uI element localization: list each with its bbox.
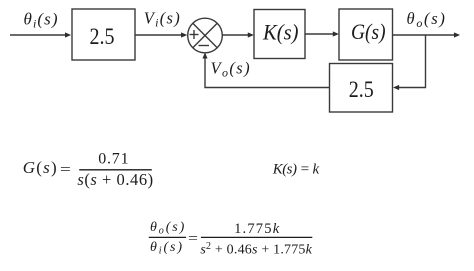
- svg-text:Vi(s): Vi(s): [144, 8, 181, 29]
- block gain 2.5 input: [72, 9, 135, 60]
- svg-text:s(s + 0.46): s(s + 0.46): [77, 170, 153, 189]
- svg-text:θi(s): θi(s): [150, 240, 184, 257]
- svg-text:0.71: 0.71: [98, 151, 129, 168]
- svg-text:=: =: [60, 162, 71, 179]
- plus sign: [190, 34, 199, 36]
- wire K to G: [305, 33, 334, 35]
- svg-text:G(s): G(s): [23, 158, 58, 177]
- svg-text:K(s): K(s): [262, 20, 298, 45]
- block K(s): [254, 10, 305, 59]
- wire output arrow: [393, 34, 456, 36]
- right fraction: [201, 236, 312, 238]
- minus sign: [199, 45, 210, 47]
- wire branch down: [398, 35, 426, 88]
- wire feedback to summer: [205, 57, 330, 87]
- svg-text:G(s): G(s): [351, 19, 386, 44]
- svg-text:s2 + 0.46s + 1.775k: s2 + 0.46s + 1.775k: [200, 241, 312, 258]
- svg-text:θo(s): θo(s): [150, 220, 186, 237]
- summing junction: [188, 18, 223, 53]
- formula transfer function: [149, 220, 313, 258]
- svg-text:1.775k: 1.775k: [234, 221, 280, 237]
- svg-text:Vo(s): Vo(s): [211, 58, 252, 79]
- svg-text:θi(s): θi(s): [24, 10, 59, 31]
- block feedback 2.5: [330, 64, 393, 113]
- svg-text:θo(s): θo(s): [407, 9, 447, 30]
- formula G(s): [23, 151, 154, 189]
- svg-text:K(s) = k: K(s) = k: [272, 162, 320, 178]
- block G(s): [339, 9, 393, 60]
- wire input arrow: [10, 34, 66, 36]
- svg-text:=: =: [188, 231, 198, 246]
- svg-text:2.5: 2.5: [349, 77, 374, 103]
- svg-text:2.5: 2.5: [90, 24, 115, 50]
- wire summer to K: [223, 34, 250, 36]
- wire block1 to summer: [135, 34, 182, 36]
